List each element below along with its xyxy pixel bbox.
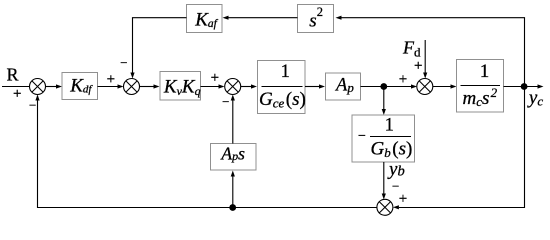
svg-text:1: 1: [480, 61, 490, 82]
wire N1 down to Gb block: [383, 87, 385, 110]
node N3: [229, 204, 236, 211]
svg-text:+: +: [399, 191, 407, 207]
block -1/Gb(s): [352, 115, 415, 163]
wire s2 to Kaf: [229, 17, 298, 19]
svg-text:Gb(s): Gb(s): [371, 139, 413, 160]
svg-text:+: +: [211, 70, 219, 86]
svg-text:−: −: [120, 55, 127, 70]
wire KvKq to summing junction S3: [201, 86, 219, 88]
wire input R to summing junction S1: [2, 86, 56, 88]
svg-text:+: +: [107, 71, 115, 87]
wire S2 to KvKq: [140, 86, 154, 88]
wire node N3 up to Aps block: [232, 177, 234, 208]
wire N2 down and left into S5: [399, 87, 525, 208]
svg-text:+: +: [13, 86, 21, 102]
wire mcs2 to output yc through node N2: [504, 86, 538, 88]
wire Aps up into S3: [232, 101, 234, 144]
summing junction S3: [225, 79, 241, 95]
svg-text:−: −: [222, 94, 229, 109]
wire S5 left along bottom and up into S1: [38, 96, 377, 208]
block Ap: [326, 73, 361, 100]
wire Gb down into S5: [383, 162, 385, 194]
svg-text:1: 1: [385, 115, 395, 136]
node N1: [380, 83, 387, 90]
block s2: [298, 5, 334, 33]
svg-text:−: −: [29, 97, 36, 112]
wire Kaf left and down into S2: [133, 18, 187, 73]
block KvKq: [160, 72, 201, 101]
wire Kdf to summing junction S2: [98, 86, 118, 88]
wire S1 to Kdf: [46, 86, 57, 88]
summing junction S5: [377, 199, 393, 215]
svg-text:−: −: [358, 129, 366, 144]
svg-text:1: 1: [281, 61, 291, 82]
block 1/Gce(s): [258, 61, 306, 114]
svg-text:+: +: [414, 58, 422, 74]
summing junction S1: [30, 79, 46, 95]
wire N2 up and left to s2 block: [342, 18, 525, 87]
wire Gce to Ap: [305, 86, 319, 88]
block Kdf: [62, 73, 98, 100]
svg-text:R: R: [7, 65, 19, 85]
block 1/mcs2: [457, 60, 504, 113]
block Aps: [211, 143, 257, 170]
wire Ap to summing junction S4 through node N1: [361, 86, 412, 88]
node N2: [521, 83, 528, 90]
svg-text:+: +: [399, 72, 407, 88]
wire S3 to Gce block: [241, 86, 251, 88]
wire S4 to mcs2 block: [433, 86, 451, 88]
wire Fd into S4: [424, 40, 426, 73]
summing junction S4: [417, 79, 433, 95]
block Kaf: [187, 5, 223, 33]
summing junction S2: [124, 79, 140, 95]
